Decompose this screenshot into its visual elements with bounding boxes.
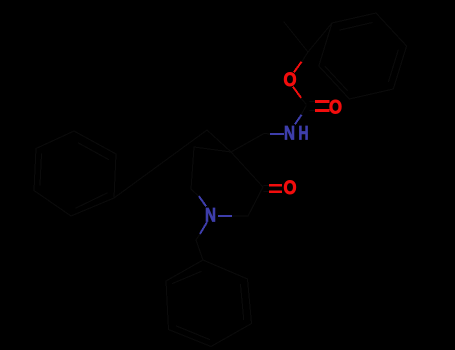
wire ring N right (blue half) — [219, 215, 231, 217]
ketone C=O red bars — [271, 184, 281, 187]
benzene ring top-right — [319, 13, 407, 99]
wire ring N up-left (blue half) — [200, 197, 206, 206]
red bond halves — [271, 63, 329, 192]
benzene ring bottom inner double bonds — [241, 285, 244, 320]
wire methyl 1 of cumyl — [284, 22, 308, 52]
wire C5 to C4 — [194, 147, 231, 152]
wire ipso bond to top-right phenyl — [308, 23, 332, 52]
wire NH to V1 (gray remainder) — [264, 133, 271, 136]
wire O ester to carbamate C (gray remainder) — [300, 97, 306, 104]
wire C3 to C2 — [248, 187, 263, 216]
wire C2 to ring N (gray half) — [231, 215, 248, 217]
svg-text:N: N — [284, 122, 295, 144]
wire O ester to quaternary C (gray remainder) — [301, 52, 308, 63]
benzene ring top-right inner double bonds — [340, 23, 372, 30]
svg-text:H: H — [299, 122, 309, 144]
wire W2 to left phenyl (long) — [114, 130, 207, 198]
svg-text:O: O — [329, 96, 342, 118]
wire benzyl CH2 to bottom ring — [196, 240, 203, 260]
wire C4 to W2 (phenethyl) — [207, 130, 231, 152]
blue bond halves — [200, 116, 302, 234]
wire ring N to C6 (gray half) — [191, 189, 200, 197]
wire O ester up to qC (red half) — [295, 63, 302, 72]
svg-text:O: O — [284, 177, 297, 199]
carbamate C=O red bars — [317, 100, 329, 103]
benzene ring left — [34, 131, 116, 216]
wire carbamate C to NH (gray half) — [301, 106, 306, 115]
wire C4 to C3 ketone — [231, 152, 263, 187]
wire O ester down to carbamate C (red half) — [294, 88, 301, 98]
carbamate C=O gray half bars — [310, 101, 317, 103]
wire carbamate C to NH (blue half) — [296, 116, 302, 124]
svg-text:N: N — [205, 204, 216, 226]
benzene ring left inner double bonds — [79, 143, 109, 160]
wire V1 to C4 — [231, 134, 264, 153]
wire ring N down-left (blue half) — [201, 223, 207, 233]
wire C6 to C5 — [191, 147, 194, 189]
wire NH to V1 (blue half) — [271, 133, 283, 135]
ketone C=O gray half bars — [264, 184, 271, 186]
svg-text:O: O — [284, 69, 297, 91]
benzene ring bottom (benzyl) — [166, 260, 252, 347]
wire N to benzyl CH2 (gray half) — [196, 233, 201, 240]
